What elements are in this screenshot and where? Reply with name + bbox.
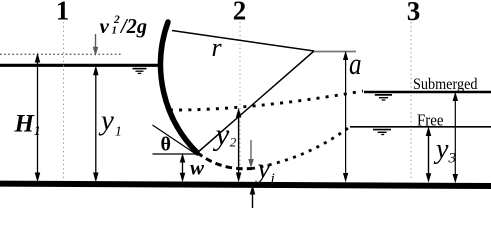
section line 1 — [63, 22, 65, 180]
water surface symbol upstream — [133, 69, 147, 74]
svg-text:θ: θ — [161, 134, 171, 156]
svg-text:yj: yj — [255, 154, 275, 188]
svg-text:3: 3 — [407, 0, 421, 26]
svg-text:2: 2 — [233, 0, 247, 25]
label v1^2/2g — [100, 14, 148, 38]
gate seat tick — [153, 153, 198, 155]
svg-text:w: w — [190, 156, 205, 180]
dimension y3 — [426, 128, 430, 181]
section line 3 — [410, 22, 412, 180]
dimension y1 — [94, 67, 98, 180]
free jet profile — [197, 153, 252, 169]
jump toe arrow below bed — [250, 187, 254, 209]
dimension y2 — [237, 110, 241, 181]
dimension w — [180, 155, 184, 181]
water surface symbol free — [373, 130, 391, 135]
svg-text:1: 1 — [56, 0, 70, 25]
dimension H1 — [35, 55, 39, 181]
upstream water surface — [0, 64, 162, 67]
svg-text:Submerged: Submerged — [413, 76, 478, 93]
vena contracta arrow — [249, 140, 253, 167]
svg-text:y3: y3 — [433, 134, 456, 166]
gate lip tangent line — [153, 125, 199, 156]
energy grade line — [0, 53, 123, 55]
submerged water level line — [364, 91, 491, 94]
channel bed — [0, 181, 491, 189]
water surface symbol submerged — [375, 95, 392, 100]
svg-text:2: 2 — [113, 14, 120, 26]
arrow v1^2/2g — [93, 34, 97, 54]
radial gate face — [161, 22, 197, 153]
svg-text:r: r — [212, 33, 223, 62]
svg-text:a: a — [349, 46, 362, 81]
svg-text:y1: y1 — [98, 105, 122, 140]
section line 2 — [239, 22, 241, 180]
svg-text:/2g: /2g — [119, 14, 147, 38]
svg-text:1: 1 — [112, 25, 118, 37]
dimension submerged tailwater depth — [453, 94, 457, 182]
gate arm lower — [197, 51, 314, 153]
svg-text:Free: Free — [417, 111, 444, 130]
free water level line — [350, 126, 491, 128]
gate arm upper — [172, 31, 314, 52]
svg-text:v: v — [100, 14, 110, 38]
dimension a — [344, 53, 348, 181]
trunnion level tick — [314, 51, 356, 53]
svg-text:H1: H1 — [14, 111, 41, 139]
submerged tailwater profile — [170, 91, 363, 110]
